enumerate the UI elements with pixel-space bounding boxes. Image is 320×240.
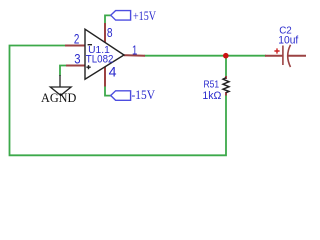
svg-text:2: 2 <box>74 32 80 47</box>
svg-text:1kΩ: 1kΩ <box>202 90 221 102</box>
svg-text:8: 8 <box>107 25 113 40</box>
svg-text:+15V: +15V <box>133 9 156 23</box>
svg-text:AGND: AGND <box>41 91 76 105</box>
svg-text:10uf: 10uf <box>278 35 299 47</box>
svg-text:TL082: TL082 <box>86 54 114 66</box>
svg-text:-15V: -15V <box>132 88 156 102</box>
svg-text:4: 4 <box>109 64 117 80</box>
svg-text:R51: R51 <box>204 79 220 91</box>
svg-text:3: 3 <box>74 52 80 67</box>
svg-text:1: 1 <box>132 43 137 57</box>
